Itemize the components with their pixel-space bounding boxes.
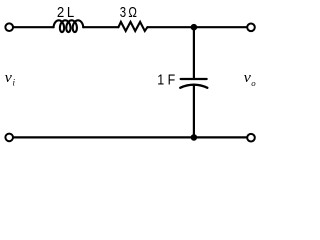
bottom rail wire [14, 136, 247, 138]
svg-text:i: i [13, 78, 16, 88]
output terminal top-right [247, 24, 255, 32]
svg-text:3 Ω: 3 Ω [120, 5, 137, 21]
svg-text:2 L: 2 L [57, 5, 74, 21]
wire top-left to inductor [14, 26, 54, 28]
wire node to capacitor top [193, 27, 195, 79]
terminal bottom-right [247, 134, 255, 142]
inductor L (2 L) coil [54, 20, 84, 32]
svg-text:1 F: 1 F [157, 72, 175, 88]
wire inductor to resistor [83, 26, 118, 28]
capacitor C curved bottom plate [180, 85, 207, 88]
wire capacitor bottom to bottom rail [193, 86, 195, 138]
terminal bottom-left [5, 134, 13, 142]
wire resistor to output terminal (through node) [147, 26, 246, 28]
svg-text:o: o [251, 78, 256, 88]
input terminal top-left [5, 23, 13, 31]
svg-text:v: v [5, 70, 13, 86]
resistor R (3 ohm) zigzag [118, 22, 147, 31]
capacitor C top plate [181, 78, 207, 80]
junction node bottom [191, 134, 198, 141]
junction node top [191, 24, 198, 31]
